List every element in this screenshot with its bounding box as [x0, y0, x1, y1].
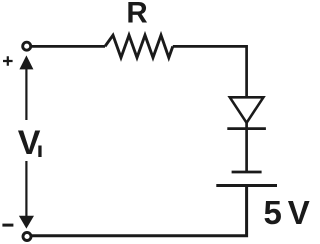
diode D1 cathode bar [227, 127, 266, 130]
svg-text:V: V [288, 194, 310, 231]
svg-text:V: V [18, 124, 41, 162]
arrow up shaft [25, 68, 27, 120]
resistor R1 [105, 35, 173, 57]
diode D1 triangle [230, 97, 264, 123]
arrow down head [19, 216, 34, 229]
battery positive plate (long) [216, 184, 277, 187]
terminal node top-left [23, 42, 31, 50]
wire battery down and bottom horizontal [30, 186, 246, 236]
terminal node bottom-left [23, 233, 31, 241]
plus sign [3, 56, 13, 66]
arrow down shaft [25, 161, 27, 217]
wire diode to battery [245, 122, 248, 172]
svg-text:5: 5 [264, 194, 282, 231]
wire top-right with corner down to diode [173, 46, 247, 98]
battery negative plate (short) [232, 171, 262, 174]
arrow up head [19, 55, 33, 69]
minus sign [2, 224, 13, 227]
wire top-left horizontal [30, 45, 105, 48]
svg-text:R: R [126, 0, 147, 30]
